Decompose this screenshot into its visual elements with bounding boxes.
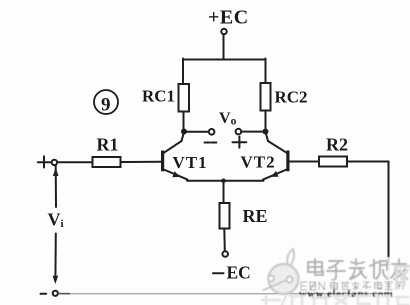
wire output terminal to C2 [241,131,264,133]
wire RC1 to node C1 [183,112,185,132]
terminal +EC [221,29,226,34]
svg-text:RC2: RC2 [275,88,308,107]
terminal -EC [222,251,228,257]
wire top rail [183,59,266,61]
svg-text:R2: R2 [326,135,348,155]
resistor RC2 [261,83,271,111]
wire Vi bottom with arrow [53,234,59,285]
terminal input - [53,291,58,296]
wire R2 to VT2 base [289,161,319,163]
transistor VT2 [263,132,288,180]
wire RC2 to node C2 [265,111,267,132]
wire input to R1 [57,161,92,163]
junction node C1 [181,129,187,135]
polarity plus at Vo [233,137,247,148]
junction node C2 [263,129,269,135]
wire right rail down [388,162,390,266]
wire common emitter [187,180,264,182]
wire R1 to VT1 base [121,161,162,163]
resistor RE [220,203,230,229]
terminal input + [52,160,57,165]
resistor R1 [93,157,121,167]
transistor VT1 [163,132,188,180]
svg-text:VT2: VT2 [241,153,276,172]
wire emitter to RE [223,181,225,203]
wire rail to RC1 [182,59,184,85]
wire C1 to output terminal [185,131,209,133]
junction emitter node [221,179,226,184]
wire RE to -EC terminal [223,229,226,252]
wire Vi top with arrow [53,165,59,207]
watermark (decorative) [262,249,410,305]
wire rail to RC2 [265,59,267,84]
svg-text:VT1: VT1 [173,153,208,172]
svg-text:R1: R1 [97,135,119,155]
circuit number 9 badge [94,90,118,116]
svg-text:+EC: +EC [208,7,249,29]
terminal Vo+ [236,129,242,135]
svg-text:RC1: RC1 [142,87,175,106]
resistor R2 [319,157,347,167]
svg-text:9: 9 [101,95,111,116]
wire bottom return [58,293,389,295]
polarity plus input [38,156,51,167]
resistor RC1 [179,84,190,112]
svg-text:EC: EC [227,263,251,283]
svg-text:RE: RE [243,206,268,226]
wire +EC down [223,34,225,59]
polarity minus input [41,293,47,295]
wire R2 to right rail [347,161,389,163]
polarity minus at Vo [205,142,217,144]
terminal Vo- [209,129,215,135]
node -EC label [213,263,251,283]
